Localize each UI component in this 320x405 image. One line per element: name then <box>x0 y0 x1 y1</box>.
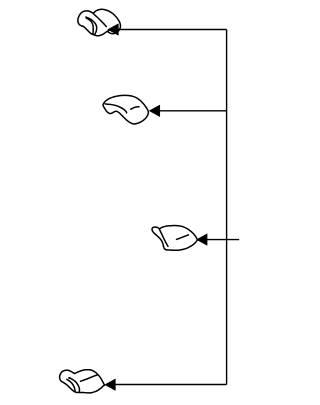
shape 1 curl point wedge <box>85 16 89 19</box>
node shape 2 (second blob): outline <box>103 95 148 124</box>
wire branch 4 (bottom, y=384.5) <box>109 384 227 386</box>
wire trunk (vertical bus, right side) <box>226 30 228 385</box>
shape 4 dome outline <box>75 370 105 385</box>
shape 1 dome outline <box>93 9 120 34</box>
wire branch 2 (y=110.8) <box>153 110 227 112</box>
arrowhead A4 (points left at shape 4) <box>105 379 116 391</box>
shape 1 curl roll upper <box>86 17 96 34</box>
shape 2 fold wave line <box>105 104 127 113</box>
shape 4 crease line <box>81 375 98 381</box>
shape 4 curl roll upper <box>69 378 79 392</box>
wire branch 1 (top, y=29.5) <box>112 29 227 31</box>
shape 1 bottom edge <box>94 30 109 35</box>
shape 1 left underside <box>83 26 94 35</box>
shape 1 curl roll lower <box>87 18 93 33</box>
shape 4 curl point wedge <box>68 377 71 379</box>
shape 3 dome outline <box>160 226 198 251</box>
shape 3 face dash <box>177 235 189 240</box>
shape 2 face dash <box>131 107 139 110</box>
node shape 4 (bottom curled blob): left+bottom outline <box>60 370 105 393</box>
node shape 1 (top-left curled blob): outline hump+left lobe <box>78 9 121 36</box>
node shape 3 (third blob): flap + left outline <box>152 226 197 251</box>
arrowhead A2 (points left at shape 2) <box>149 105 160 117</box>
shape 4 curl roll lower <box>67 379 75 391</box>
arrowhead A3 (points left at shape 3) <box>197 234 208 246</box>
arrowhead A1 (points left at shape 1) <box>108 24 119 36</box>
wire branch 3 (y=239.6, crosses trunk to right stub) <box>201 239 240 241</box>
shape 1 crease line <box>93 14 106 27</box>
shape 3 flap fold line <box>160 230 169 247</box>
